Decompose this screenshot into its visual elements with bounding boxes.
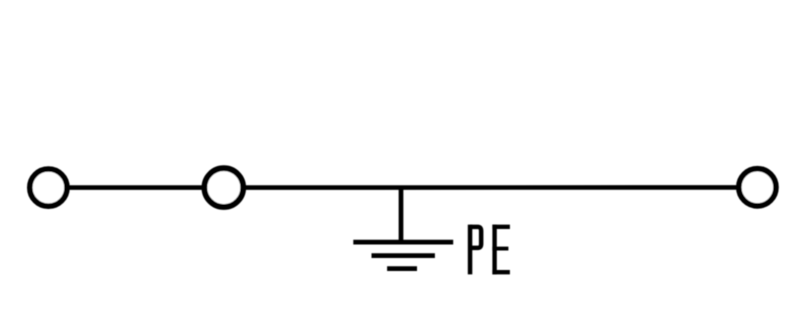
ground (353, 242, 453, 269)
terminal circle (right) (739, 169, 776, 206)
terminal circle (middle) (204, 168, 243, 207)
wire (middle terminal to right terminal) (224, 185, 758, 190)
wire (left terminal to middle terminal) (48, 185, 223, 190)
wire (ground drop at junction) (399, 188, 404, 243)
label PE (468, 225, 510, 275)
terminal circle (left) (30, 169, 67, 206)
